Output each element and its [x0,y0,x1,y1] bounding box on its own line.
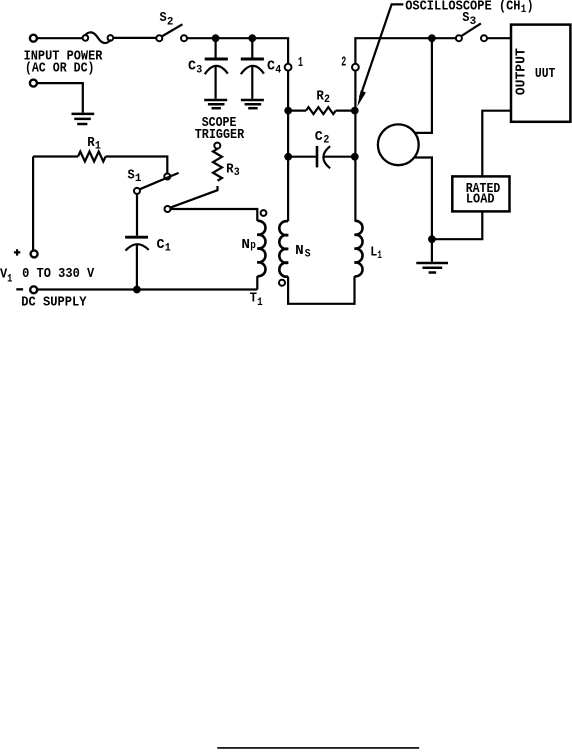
svg-text:S: S [462,10,469,26]
svg-text:C: C [157,237,166,253]
svg-text:TRIGGER: TRIGGER [195,127,245,143]
junction dot probe rail top [428,34,436,42]
junction dot R2 right [351,107,359,115]
svg-text:1: 1 [7,273,13,285]
label 2 [341,54,346,70]
label DC SUPPLY [21,294,87,310]
label R3 [226,161,240,179]
switch S2 [156,24,187,41]
label C3 [188,58,203,76]
capacitor C2 [288,146,354,168]
svg-text:S: S [305,249,311,261]
label SCOPE TRIGGER [195,115,245,143]
svg-text:3: 3 [470,16,477,28]
junction dot ground [428,235,436,243]
winding Np [257,221,265,276]
svg-text:S: S [128,167,135,183]
svg-text:3: 3 [234,167,240,179]
svg-text:L: L [370,244,377,260]
wire probe rail down [415,38,432,133]
junction dot C1 bottom [133,286,141,294]
wire to ground [38,83,83,113]
+ terminal [31,250,38,257]
wire S3 to UUT box [487,37,511,39]
svg-text:0 TO 330 V: 0 TO 330 V [22,266,95,282]
switch S1 [134,173,179,194]
label S1 [128,167,142,185]
label T1 [250,291,263,309]
svg-text:2: 2 [167,17,174,29]
label Ns [295,243,311,261]
bottom wire - terminal to T1 [38,288,257,290]
svg-text:C: C [188,58,197,74]
svg-text:S: S [160,10,167,26]
bottom loop Ns to L1 [288,276,354,304]
svg-text:4: 4 [275,64,281,76]
right rail node2 down to L1 [354,71,356,221]
label minus [16,288,23,290]
wire left rail to + terminal [32,157,34,250]
wire rated load bottom to junction [432,211,482,239]
ground (right) [416,239,448,272]
oscilloscope leader arrow [357,4,403,106]
input terminal bottom [30,80,37,87]
transformer T1 primary top terminal circle [261,210,267,216]
node 2 circle [352,64,359,71]
capacitor C1 [125,194,149,290]
svg-text:C: C [267,58,276,74]
junction dot C4 top [248,34,256,42]
svg-text:T: T [250,291,257,307]
Ns bottom terminal circle [279,280,285,286]
junction dot R2 left [284,107,292,115]
left rail node1 to Ns [287,71,289,222]
svg-text:N: N [295,243,304,259]
label C2 [315,129,330,146]
Np bottom to bottom wire [256,276,258,289]
svg-text:(AC OR DC): (AC OR DC) [25,60,95,76]
label R2 [316,89,330,107]
label OUTPUT (rotated) [513,48,529,95]
right rail top corner to S3 [355,38,456,64]
winding Ns [279,221,288,277]
label C1 [157,237,172,255]
svg-text:C: C [315,129,324,145]
label UUT [535,66,555,82]
UUT box [511,25,570,122]
resistor R1 [33,152,167,174]
svg-text:3: 3 [196,64,202,76]
svg-text:): ) [527,0,534,14]
current probe circle [378,124,419,165]
label RATED LOAD [466,181,501,208]
svg-text:2: 2 [323,135,329,147]
svg-text:2: 2 [324,94,330,106]
label S3 [462,10,476,28]
ground (C4) [241,100,264,108]
RATED LOAD box [452,176,509,211]
svg-text:DC SUPPLY: DC SUPPLY [21,294,87,310]
svg-text:1: 1 [95,141,101,153]
junction dot C2 right [351,153,359,161]
svg-text:1: 1 [257,297,263,309]
svg-text:1: 1 [135,173,142,185]
wire fuse to S2 [113,37,156,39]
top wire S2 to corner, down to node 1 [187,38,288,64]
ground (C3) [204,100,227,108]
winding L1 [355,221,363,277]
label C4 [267,58,282,76]
ground (input) [72,114,95,124]
label 1 [298,55,303,71]
input terminal top [30,35,37,42]
wire pole to Np [171,209,258,221]
resistor R2 [288,107,354,114]
wire R3 diagonal to pole circle [170,186,217,208]
svg-text:1: 1 [377,250,382,262]
label plus [14,249,20,255]
label L1 [370,244,382,262]
wire UUT lower-left to rated load [482,111,511,177]
resistor R3 [213,149,222,181]
label S2 [160,10,174,29]
svg-text:p: p [250,240,256,252]
junction dot C3 top [212,34,220,42]
label Np [241,237,256,253]
svg-text:2: 2 [341,54,346,70]
junction dot C2 left [284,153,292,161]
label OSCILLOSCOPE (CH1) [405,0,533,16]
- terminal [30,286,37,293]
label R1 [87,135,101,153]
wire probe bottom stub down to junction [414,158,432,240]
switch S3 [456,23,487,41]
svg-text:OUTPUT: OUTPUT [513,48,529,95]
svg-text:1: 1 [165,243,171,255]
svg-text:UUT: UUT [535,66,555,82]
svg-text:1: 1 [298,55,303,71]
svg-text:LOAD: LOAD [466,192,495,208]
label V1 0 TO 330 V [0,266,95,285]
trigger pole circle [165,206,171,212]
svg-text:N: N [241,237,250,253]
bottom rule [217,747,419,749]
capacitor C4 [241,38,264,99]
wire input to fuse [38,37,83,39]
fuse F (circles + wave) [83,32,114,43]
node 1 circle [285,64,292,71]
capacitor C3 [205,38,228,99]
scope trigger terminal circle [214,143,220,149]
label INPUT POWER [24,49,103,77]
